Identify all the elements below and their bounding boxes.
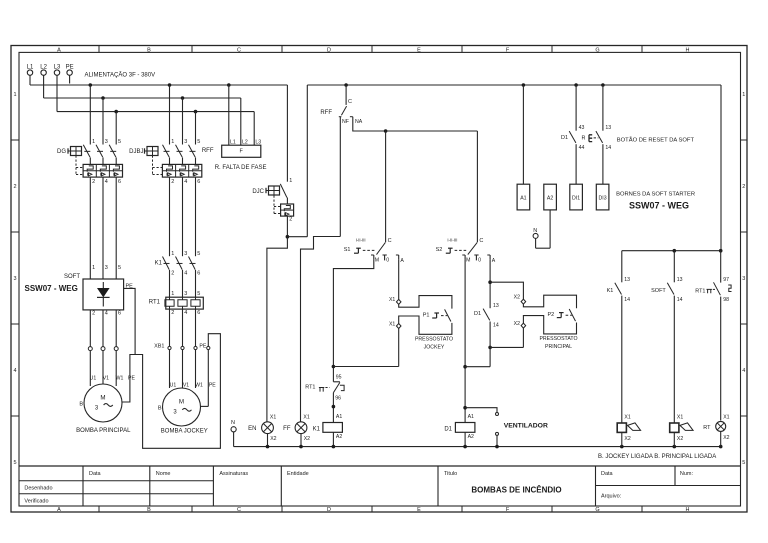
svg-text:97: 97 xyxy=(723,277,729,283)
svg-text:1: 1 xyxy=(742,92,745,98)
svg-text:X2: X2 xyxy=(624,436,630,442)
svg-text:6: 6 xyxy=(118,311,121,317)
signal lamp RT xyxy=(703,415,729,447)
svg-text:3: 3 xyxy=(105,139,108,145)
svg-text:N: N xyxy=(231,420,235,426)
pushbutton reset R xyxy=(582,85,612,184)
svg-text:14: 14 xyxy=(624,297,630,303)
svg-text:A: A xyxy=(57,507,61,513)
svg-text:A1: A1 xyxy=(520,196,526,202)
label reset xyxy=(617,136,695,143)
svg-text:E: E xyxy=(417,48,421,54)
svg-text:2: 2 xyxy=(289,217,292,223)
svg-text:5: 5 xyxy=(118,139,121,145)
svg-text:DG: DG xyxy=(57,149,66,155)
svg-text:DI3: DI3 xyxy=(599,196,607,202)
svg-text:B: B xyxy=(147,48,151,54)
svg-text:A2: A2 xyxy=(336,434,342,440)
svg-text:X2: X2 xyxy=(514,321,520,327)
svg-text:G: G xyxy=(595,507,599,513)
svg-text:H: H xyxy=(686,48,690,54)
supply terminal L1 xyxy=(27,65,34,76)
signal lamp FF xyxy=(283,415,310,447)
selector switch S1 xyxy=(344,131,405,264)
svg-text:X1: X1 xyxy=(723,415,729,421)
svg-text:B. JOCKEY LIGADA B. PRINCIPA: B. JOCKEY LIGADA B. PRINCIPAL LIGADA xyxy=(598,454,716,460)
contactor K1 power contacts xyxy=(155,251,201,297)
svg-text:U1: U1 xyxy=(90,375,97,381)
svg-text:DJC: DJC xyxy=(252,189,264,195)
circuit breaker DJBJ xyxy=(129,85,202,256)
svg-text:M: M xyxy=(100,395,105,402)
svg-text:Titulo: Titulo xyxy=(444,471,457,477)
svg-text:D: D xyxy=(327,507,331,513)
svg-text:2: 2 xyxy=(92,311,95,317)
svg-text:X2: X2 xyxy=(514,294,520,300)
svg-text:Arquivo:: Arquivo: xyxy=(601,494,622,500)
svg-text:N: N xyxy=(533,228,537,234)
wire L3 drop xyxy=(56,75,58,111)
svg-text:B: B xyxy=(147,507,151,513)
svg-text:BOTÃO DE RESET DA SOFT: BOTÃO DE RESET DA SOFT xyxy=(617,136,695,143)
svg-text:14: 14 xyxy=(677,297,683,303)
svg-text:C: C xyxy=(237,507,241,513)
wire NA line xyxy=(353,117,478,133)
svg-text:RT: RT xyxy=(703,425,711,431)
svg-text:2: 2 xyxy=(171,310,174,316)
svg-text:SOFT: SOFT xyxy=(651,288,666,294)
svg-text:X1: X1 xyxy=(677,415,683,421)
signal lamp EN xyxy=(248,415,277,447)
svg-text:RT1: RT1 xyxy=(695,288,705,294)
svg-text:A1: A1 xyxy=(468,414,474,420)
svg-text:95: 95 xyxy=(336,374,342,380)
svg-text:PRESSOSTATO: PRESSOSTATO xyxy=(415,337,453,343)
contact K1 13-14 xyxy=(607,251,631,423)
svg-text:W1: W1 xyxy=(195,383,203,389)
svg-text:PRESSOSTATO: PRESSOSTATO xyxy=(539,336,577,342)
wire bus L3 xyxy=(57,110,254,114)
supply terminal PE xyxy=(66,65,74,76)
svg-text:A: A xyxy=(57,48,61,54)
svg-text:H: H xyxy=(686,507,690,513)
svg-text:M: M xyxy=(179,399,184,406)
svg-text:M: M xyxy=(375,258,379,264)
svg-text:43: 43 xyxy=(579,125,585,131)
svg-text:0: 0 xyxy=(478,258,481,264)
svg-text:1: 1 xyxy=(92,139,95,145)
selector switch S2 xyxy=(436,131,496,264)
svg-text:1: 1 xyxy=(171,139,174,145)
svg-text:Data: Data xyxy=(601,471,614,477)
wire DJC to control bus xyxy=(287,85,307,237)
wire S2-A branch xyxy=(488,260,492,349)
svg-text:PE: PE xyxy=(199,344,206,350)
svg-text:1: 1 xyxy=(171,291,174,297)
borne DI1 xyxy=(570,184,583,210)
svg-text:EN: EN xyxy=(248,426,256,432)
svg-text:14: 14 xyxy=(605,145,611,151)
svg-text:E: E xyxy=(417,507,421,513)
label supply xyxy=(85,72,156,79)
contactor coil K1 xyxy=(313,414,343,446)
svg-text:1: 1 xyxy=(171,251,174,257)
svg-text:SSW07 - WEG: SSW07 - WEG xyxy=(629,201,689,211)
svg-text:0: 0 xyxy=(386,258,389,264)
terminal N (left) xyxy=(231,420,236,446)
thermal contact RT1 95-96 xyxy=(305,374,344,422)
terminals XB1 xyxy=(154,344,210,407)
svg-text:C: C xyxy=(237,48,241,54)
circuit breaker DG xyxy=(57,85,123,279)
svg-text:44: 44 xyxy=(579,145,585,151)
contact D1 43-44 xyxy=(561,85,585,184)
wire to lamp EN xyxy=(267,237,288,422)
svg-text:BOMBA PRINCIPAL: BOMBA PRINCIPAL xyxy=(76,428,131,434)
svg-text:SOFT: SOFT xyxy=(64,274,80,280)
svg-text:Data: Data xyxy=(89,471,102,477)
svg-text:K1: K1 xyxy=(313,426,321,432)
svg-text:XB1: XB1 xyxy=(154,344,164,350)
wire PE principal xyxy=(122,288,135,402)
wire to lamp FF xyxy=(301,237,341,422)
wires soft starter to motor xyxy=(88,265,121,386)
svg-text:6: 6 xyxy=(197,179,200,185)
indicator B.JOCKEY xyxy=(617,415,640,447)
svg-text:D1: D1 xyxy=(444,426,452,432)
wire upper right rail xyxy=(622,85,723,253)
label lamps xyxy=(598,454,716,460)
svg-text:B: B xyxy=(79,401,83,407)
svg-text:D1: D1 xyxy=(561,135,568,141)
supply terminal L2 xyxy=(40,65,47,76)
svg-text:RFF: RFF xyxy=(202,148,214,154)
indicator B.PRINCIPAL xyxy=(670,415,693,447)
svg-text:K1: K1 xyxy=(155,261,163,267)
svg-text:96: 96 xyxy=(335,395,341,401)
svg-text:VENTILADOR: VENTILADOR xyxy=(504,422,548,429)
node DJC output xyxy=(286,235,290,239)
svg-text:2: 2 xyxy=(171,271,174,277)
wire bus L2 xyxy=(44,96,241,100)
wire S1-M to K1 branch xyxy=(332,260,374,382)
svg-text:A1: A1 xyxy=(336,414,342,420)
wire PE stub xyxy=(69,75,71,83)
supply terminal L3 xyxy=(54,65,61,76)
svg-text:2: 2 xyxy=(742,184,745,190)
svg-text:A2: A2 xyxy=(468,434,474,440)
svg-text:ALIMENTAÇÃO 3F - 380V: ALIMENTAÇÃO 3F - 380V xyxy=(85,72,156,79)
svg-text:4: 4 xyxy=(184,179,187,185)
svg-text:DJBJ: DJBJ xyxy=(129,149,143,155)
svg-text:3: 3 xyxy=(184,291,187,297)
svg-text:Nome: Nome xyxy=(156,471,171,477)
svg-text:2: 2 xyxy=(92,179,95,185)
svg-text:5: 5 xyxy=(197,251,200,257)
svg-text:X1: X1 xyxy=(389,321,395,327)
svg-text:14: 14 xyxy=(493,323,499,329)
svg-text:X1: X1 xyxy=(270,415,276,421)
svg-text:1: 1 xyxy=(13,92,16,98)
terminal N (A2) xyxy=(533,210,550,248)
svg-text:S2: S2 xyxy=(436,247,443,253)
svg-text:C: C xyxy=(479,238,483,244)
borne A1 xyxy=(517,184,530,210)
svg-text:I-II-III: I-II-III xyxy=(356,238,366,243)
svg-text:Entidade: Entidade xyxy=(287,471,309,477)
wire L2 drop xyxy=(43,75,45,98)
svg-text:NA: NA xyxy=(355,119,363,125)
svg-text:3: 3 xyxy=(105,265,108,271)
motor M1 bomba principal xyxy=(76,375,135,434)
svg-text:SSW07 - WEG: SSW07 - WEG xyxy=(25,284,78,293)
svg-text:PE: PE xyxy=(128,375,135,381)
thermal contact RT1 97-98 xyxy=(695,251,731,421)
wire L1 drop xyxy=(29,75,31,85)
svg-text:P2: P2 xyxy=(547,312,554,318)
ventilador terminals xyxy=(465,408,548,447)
pressure switch P1 (jockey) xyxy=(333,260,453,367)
svg-text:6: 6 xyxy=(197,310,200,316)
svg-text:I-II-III: I-II-III xyxy=(447,238,457,243)
svg-text:BORNES DA SOFT STARTER: BORNES DA SOFT STARTER xyxy=(616,191,695,197)
soft starter SSW07 box xyxy=(25,274,134,310)
svg-text:X2: X2 xyxy=(270,436,276,442)
svg-text:4: 4 xyxy=(184,271,187,277)
svg-text:5: 5 xyxy=(13,460,16,466)
svg-text:G: G xyxy=(595,48,599,54)
svg-text:K1: K1 xyxy=(607,288,614,294)
svg-text:3: 3 xyxy=(742,276,745,282)
svg-text:X2: X2 xyxy=(304,436,310,442)
svg-text:A: A xyxy=(400,258,404,264)
wire bus L1 xyxy=(30,83,287,87)
motor M2 bomba jockey xyxy=(158,383,216,435)
svg-text:4: 4 xyxy=(13,368,16,374)
svg-text:4: 4 xyxy=(105,179,108,185)
svg-text:1: 1 xyxy=(92,265,95,271)
overload relay RT1 xyxy=(149,291,204,346)
svg-text:13: 13 xyxy=(624,277,630,283)
svg-text:3: 3 xyxy=(184,251,187,257)
svg-text:RT1: RT1 xyxy=(305,384,315,390)
svg-text:4: 4 xyxy=(742,368,745,374)
svg-text:5: 5 xyxy=(197,139,200,145)
svg-text:4: 4 xyxy=(184,310,187,316)
svg-text:Assinaturas: Assinaturas xyxy=(219,471,248,477)
svg-text:2: 2 xyxy=(13,184,16,190)
wire PE loop to jockey xyxy=(135,334,220,449)
circuit breaker DJC xyxy=(252,85,293,237)
svg-text:Verificado: Verificado xyxy=(24,499,48,505)
wire N rail xyxy=(234,445,723,449)
svg-text:4: 4 xyxy=(105,311,108,317)
svg-text:D1: D1 xyxy=(474,311,481,317)
contact RFF NF-NA xyxy=(320,85,362,237)
svg-text:X2: X2 xyxy=(723,435,729,441)
contact SOFT 13-14 xyxy=(651,251,683,423)
svg-text:X2: X2 xyxy=(677,436,683,442)
svg-text:6: 6 xyxy=(118,179,121,185)
svg-text:X1: X1 xyxy=(389,297,395,303)
contactor coil D1 xyxy=(444,414,475,446)
svg-text:X1: X1 xyxy=(303,415,309,421)
svg-text:BOMBAS DE INCÊNDIO: BOMBAS DE INCÊNDIO xyxy=(471,486,561,495)
svg-text:5: 5 xyxy=(197,291,200,297)
svg-text:98: 98 xyxy=(723,297,729,303)
svg-text:P1: P1 xyxy=(423,313,430,319)
contact D1 13-14 xyxy=(474,282,499,367)
svg-text:B: B xyxy=(158,405,162,411)
svg-text:X1: X1 xyxy=(624,415,630,421)
svg-text:A2: A2 xyxy=(547,196,553,202)
svg-text:5: 5 xyxy=(742,460,745,466)
svg-text:Num:: Num: xyxy=(680,471,694,477)
svg-text:NF: NF xyxy=(342,119,349,125)
title block xyxy=(19,466,741,506)
svg-text:V1: V1 xyxy=(103,375,109,381)
svg-text:RT1: RT1 xyxy=(149,300,161,306)
svg-text:PE: PE xyxy=(209,383,216,389)
svg-text:FF: FF xyxy=(283,426,291,432)
svg-text:6: 6 xyxy=(197,271,200,277)
svg-text:W1: W1 xyxy=(116,375,124,381)
borne DI3 xyxy=(596,184,609,210)
svg-text:3: 3 xyxy=(184,139,187,145)
svg-text:DI1: DI1 xyxy=(572,196,580,202)
relay RFF (phase failure) xyxy=(202,85,267,171)
svg-text:C: C xyxy=(348,99,352,105)
svg-text:R. FALTA DE FASE: R. FALTA DE FASE xyxy=(215,165,267,171)
svg-text:M: M xyxy=(466,258,470,264)
svg-text:5: 5 xyxy=(118,265,121,271)
svg-text:C: C xyxy=(388,238,392,244)
svg-text:Desenhado: Desenhado xyxy=(24,486,52,492)
svg-text:RFF: RFF xyxy=(320,110,332,116)
pressure switch P2 (principal) xyxy=(490,282,577,350)
svg-text:JOCKEY: JOCKEY xyxy=(424,344,445,350)
svg-text:13: 13 xyxy=(677,277,683,283)
svg-text:13: 13 xyxy=(493,303,499,309)
svg-text:BOMBA JOCKEY: BOMBA JOCKEY xyxy=(161,428,208,434)
borne A2 xyxy=(544,184,557,210)
svg-text:3: 3 xyxy=(13,276,16,282)
svg-text:1: 1 xyxy=(289,178,292,184)
svg-text:13: 13 xyxy=(605,125,611,131)
svg-text:A: A xyxy=(492,258,496,264)
svg-text:2: 2 xyxy=(171,179,174,185)
svg-text:R: R xyxy=(582,136,586,142)
label bornes xyxy=(616,191,695,210)
svg-text:D: D xyxy=(327,48,331,54)
wire control bus xyxy=(307,83,721,87)
wire P2 join to M branch xyxy=(465,366,490,368)
svg-text:S1: S1 xyxy=(344,247,351,253)
svg-text:U1: U1 xyxy=(170,383,177,389)
wire A1 feed xyxy=(522,85,524,184)
svg-text:PRINCIPAL: PRINCIPAL xyxy=(545,344,572,350)
wire S2-M branch xyxy=(463,260,467,423)
